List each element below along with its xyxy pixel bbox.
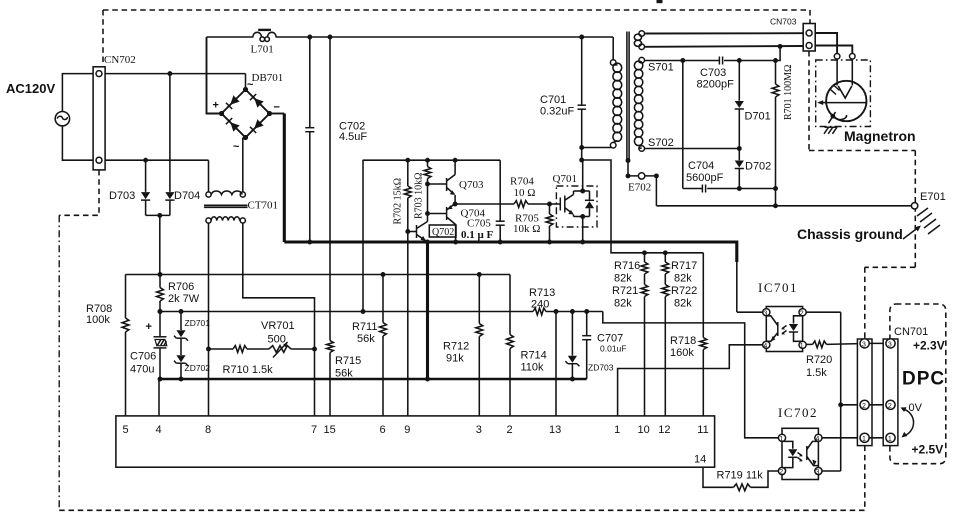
svg-text:470u: 470u [130,364,154,376]
wire IC702 pin3 to 0V line [822,470,841,472]
DB701 diode top-right [254,98,263,107]
wire filament row1 to CN703 [645,32,804,34]
label Q702 boxed [429,225,456,237]
node C705 / rail [498,240,503,245]
dash-dot border left edge [58,215,60,510]
node S701 row / D701 [737,58,742,63]
svg-text:D703: D703 [109,190,135,202]
svg-text:C703: C703 [700,67,726,79]
resistor R706 [159,275,161,288]
svg-text:0.01uF: 0.01uF [600,344,626,354]
wire driver top row y=160.2 [363,159,500,161]
svg-text:9: 9 [404,424,410,436]
diode D701 [738,61,740,101]
svg-text:110k: 110k [521,362,545,374]
resistor R705 [549,204,551,214]
node R702 / Q702 base [405,229,410,234]
dashed border x=865 lower segment [864,446,866,511]
svg-text:2: 2 [507,424,513,436]
zener ZD702 [176,355,185,362]
svg-text:R712: R712 [443,341,469,353]
svg-text:10k Ω: 10k Ω [513,223,540,235]
IC701 phototransistor [777,322,779,336]
DB701 AC input feed top [245,74,247,90]
svg-text:−: − [274,102,280,114]
transformer primary winding [610,60,616,66]
svg-text:6: 6 [380,424,386,436]
node top rail / C702 [307,35,312,40]
svg-text:160k: 160k [670,347,694,359]
svg-text:14: 14 [694,454,706,466]
node ZD702 bottom [179,377,184,382]
dashed border CN702 stub [59,170,99,215]
svg-text:240: 240 [531,299,549,311]
svg-text:DPC: DPC [902,369,945,390]
svg-text:C705: C705 [467,218,491,230]
optocoupler IC702 box [782,428,818,479]
dashed border x=865 upper segment [864,267,866,339]
node R705 / rail [547,240,552,245]
svg-text:56k: 56k [357,333,375,345]
transistor Q703 [428,183,447,185]
svg-text:12: 12 [658,424,670,436]
resistor R703 [427,160,429,166]
wire primary bottom link [582,147,612,149]
node filament row2 / HV jog [778,44,783,49]
node Vcc/R712 [477,272,482,277]
IC701 LED [794,316,803,324]
capacitor C706 [159,312,161,337]
resistors R716+R721 column to pin 10 [644,253,646,262]
svg-text:R704: R704 [510,176,534,188]
svg-text:R718: R718 [670,335,696,347]
svg-text:ZD701: ZD701 [185,318,211,328]
svg-text:91k: 91k [446,353,464,365]
node ZD703 bottom [570,377,575,382]
node E702 right [654,173,659,178]
svg-text:VR701: VR701 [261,320,295,332]
dashed border left upper segment [102,10,104,62]
wire gate lead into Q701 [550,203,561,205]
node gate row / R705 [547,202,552,207]
svg-text:CN701: CN701 [894,326,928,338]
wire CT701 secondary left to IC pin 8 [208,223,210,416]
svg-text:1.5k: 1.5k [806,367,827,379]
svg-text:C704: C704 [688,160,714,172]
node row/R703 [425,158,430,163]
dashed border top edge [103,9,810,11]
resistors R717+R722 column to pin 12 [664,253,666,262]
svg-text:2: 2 [888,403,892,410]
magnetron tube symbol [826,81,866,121]
svg-text:R710 1.5k: R710 1.5k [223,364,274,376]
wire driver supply column x=363 [362,160,364,312]
wire DB701 + output to top rail [207,37,222,114]
connector CN703 [803,24,815,52]
wire C704 row [683,188,702,190]
node Vcc/R711 [381,272,386,277]
dashed border right edge E701 segment [914,151,916,268]
wire IC701 pin3 to emitter rail [737,311,763,313]
wire HV jog to filament row2 [776,46,781,60]
capacitor C707 [586,312,588,336]
svg-text:3: 3 [862,342,866,349]
transistor Q704 (PNP) [428,213,447,215]
IC702 pin circles [778,434,785,441]
dashed boundary HV corner [865,266,916,268]
node S701 row / C704 column [680,58,685,63]
thick emitter rail [284,242,737,262]
diode D704 [169,74,171,192]
wire VR row y=349 [209,348,234,350]
svg-text:R701 100MΩ: R701 100MΩ [783,65,794,121]
resistor R702 and column to IC pin 9 [407,160,409,186]
svg-text:D701: D701 [745,111,771,123]
svg-text:R713: R713 [529,287,555,299]
svg-text:R720: R720 [806,354,832,366]
diode D702 [738,149,740,161]
svg-text:7: 7 [311,424,317,436]
resistor R712 [478,275,480,324]
node C701 / primary bottom [579,145,584,150]
resistor R713 in row [533,308,546,315]
svg-text:R717: R717 [671,260,697,272]
wire filament row2 to CN703 [645,45,804,48]
thick ground rail y=379 [160,378,587,381]
svg-text:S702: S702 [648,137,674,149]
wire pin13 column [555,312,557,416]
resistor R720 row [806,343,812,345]
node link / rail242 [425,240,430,245]
0V bracket arrow [903,409,914,436]
svg-text:S701: S701 [648,62,674,74]
svg-text:5600pF: 5600pF [686,172,724,184]
svg-text:8: 8 [205,424,211,436]
svg-text:R719 11k: R719 11k [717,470,764,482]
svg-text:C701: C701 [540,94,566,106]
control IC box [116,416,715,467]
DB701 diode bottom-left [230,122,239,131]
capacitor C705 [499,160,501,221]
svg-text:2k 7W: 2k 7W [168,293,200,305]
potentiometer VR701 [269,346,291,353]
svg-text:AC120V: AC120V [6,81,55,96]
wire IC701 pin2 to 0V line [806,311,841,313]
svg-text:11: 11 [697,424,708,436]
resistor R701 [775,61,777,85]
wire AC hot: source top to CN702 pin1 and on to DB701 AC input [62,74,93,112]
resistor R708 [125,275,127,319]
wire CN703 to magnetron filament 1 [815,33,837,54]
svg-text:2: 2 [779,469,783,476]
node D701/D702/S702 [737,146,742,151]
dashed border below CN703 to magnetron boundary [808,51,810,151]
node ref row / pin13 [554,309,559,314]
svg-text:0V: 0V [909,402,923,414]
node R703 column / Q704 base wire [425,211,430,216]
wire AC neutral: source bottom to CN702 pin2 and on to CT701 [62,126,93,160]
svg-text:L701: L701 [251,44,274,56]
node D703 top [143,158,148,163]
transformer secondary winding S701-S702 [639,57,645,63]
wire collector sense [582,160,704,253]
svg-text:IC701: IC701 [758,280,798,295]
node ZD703 top [570,309,575,314]
svg-text:D704: D704 [174,190,200,202]
diode D703 [145,160,147,192]
zener ZD703 [571,312,573,356]
svg-text:R715: R715 [335,355,361,367]
capacitor C701 [581,37,583,105]
svg-text:3: 3 [476,424,482,436]
svg-text:R721: R721 [612,285,638,297]
wire Q701 collector [582,160,584,191]
svg-text:R716: R716 [614,260,640,272]
svg-text:E702: E702 [628,182,651,194]
node driver supply / ref row [361,309,366,314]
svg-text:1: 1 [614,424,620,436]
wire HV output to chassis row [775,189,777,206]
current transformer CT701 primary [206,192,211,197]
dashed border right drop to CN703 [809,10,811,24]
wire top rail left of L701 [207,36,254,38]
node Vcc/R706 [158,272,163,277]
svg-text:Chassis ground: Chassis ground [797,226,903,242]
svg-text:15: 15 [324,424,336,436]
capacitor C704 in row [701,185,703,193]
resistor R715 column from top rail to pin 15 [329,37,331,341]
connector DPC-side column [883,339,898,446]
wire DB701 AC bottom to CT701 [242,138,244,192]
zener ZD701 [180,312,182,331]
svg-text:R714: R714 [521,350,547,362]
svg-text:1: 1 [862,436,866,443]
wire gate row y=204 [455,203,514,205]
svg-text:Magnetron: Magnetron [844,128,916,144]
wire C704 column [682,61,684,189]
svg-text:DB701: DB701 [252,72,284,84]
DB701 diode bottom-right [254,119,263,128]
wire IC702 pin4 to connector row1 [822,437,860,439]
node C704 row / R701 [773,186,778,191]
node VR row / pin8 column [206,347,211,352]
wire CT701 secondary right to IC pin 7 [243,223,315,416]
node C702 / rail [307,240,312,245]
svg-text:D702: D702 [745,161,771,173]
terminal E702 [628,175,656,177]
wire core to E702 [627,160,629,176]
resistor R714 [509,275,511,335]
svg-text:R706: R706 [168,281,194,293]
capacitor C702 [309,37,311,127]
svg-text:13: 13 [549,424,561,436]
svg-text:10: 10 [638,424,650,436]
node C707 top [584,309,589,314]
svg-text:+2.5V: +2.5V [912,443,944,457]
svg-text:IC702: IC702 [778,405,818,420]
wire D703/D704 junction [146,214,170,216]
transistor Q701 IGBT symbol [559,198,561,211]
svg-text:C706: C706 [130,351,156,363]
svg-text:10 Ω: 10 Ω [514,187,536,199]
connector board-side column [857,339,872,446]
svg-text:4: 4 [763,343,767,350]
node sense row / R716 [642,250,647,255]
svg-text:R702 15kΩ: R702 15kΩ [393,178,404,225]
svg-text:ZD703: ZD703 [588,363,614,373]
DPC dashed box [890,304,946,464]
dashed boundary magnetron bottom [809,150,915,152]
node C706 top [158,309,163,314]
wire CN703 to magnetron filament 2 [815,46,852,54]
page mark [657,0,663,3]
svg-text:CN703: CN703 [770,17,797,27]
IC702 phototransistor [806,446,808,460]
svg-text:+: + [213,100,219,112]
optocoupler IC701 box [766,307,802,352]
dashed border bottom edge [59,509,865,511]
resistor R718 column to pin 11 [702,253,704,338]
IC702 LED [782,441,793,448]
svg-text:Q702: Q702 [432,227,454,238]
svg-text:R722: R722 [671,285,697,297]
wire S702 row [645,148,740,150]
wire top rail L701 to transformer [276,36,614,38]
connector CN702 [93,67,105,170]
svg-text:3: 3 [888,342,892,349]
svg-text:500: 500 [268,334,286,346]
svg-text:56k: 56k [335,368,353,380]
node link / rail379 [425,377,430,382]
wire top rail into primary [612,37,614,60]
svg-text:Q701: Q701 [553,173,577,185]
wire feedback row y=368.5 pin1 to IC701 pin4 [618,345,763,416]
CT701 secondary [206,218,211,223]
node D704 top [167,71,172,76]
svg-text:R703 10kΩ: R703 10kΩ [414,172,425,219]
CT701 core [204,204,248,206]
svg-text:E701: E701 [920,191,946,203]
svg-text:0.32uF: 0.32uF [540,106,575,118]
wire ref row step to IC702 pin1 feed [603,312,779,438]
node R706 bottom [158,309,163,314]
svg-text:R711: R711 [352,321,377,333]
svg-text:0.1 μ F: 0.1 μ F [461,229,493,241]
resistor R710 [233,346,247,353]
node C704 row / D702 [737,186,742,191]
bridge rectifier DB701 [222,90,270,138]
Q701 internal diode [583,190,590,192]
wire E702 down to chassis row [655,176,657,206]
svg-text:Q703: Q703 [459,179,484,191]
node top rail / C701 [579,35,584,40]
svg-text:~: ~ [247,79,254,91]
svg-text:82k: 82k [674,298,692,310]
wire chassis ground row [656,205,911,207]
svg-text:ZD702: ZD702 [185,363,211,373]
pin 4 stub (ground rail into IC) [158,379,160,416]
node row/R702 [405,158,410,163]
wire pin14 through R719 to IC702 pin2 [703,468,734,488]
svg-text:1: 1 [888,436,892,443]
node S701 row end / R701 [773,58,778,63]
wire Vcc row y=274 [126,274,511,276]
terminal E701 [911,203,917,209]
wire DB701 - output to thick emitter rail [270,113,285,115]
node row/Q703 collector [453,158,458,163]
node Q704 collector / rail [453,240,458,245]
svg-text:5: 5 [123,424,129,436]
node ZD701 top [179,309,184,314]
wire Q701 emitter to rail [582,217,584,243]
svg-text:82k: 82k [614,273,632,285]
AC source V1 (AC120V) [55,112,69,126]
svg-text:8200pF: 8200pF [697,79,735,91]
node Q704 emitter / gate row [453,202,458,207]
node top rail / R715 column [328,35,333,40]
DB701 diode top-left [230,95,239,104]
node VR row / pin7 column [312,347,317,352]
svg-text:82k: 82k [614,298,632,310]
wires between connector halves [869,342,886,344]
resistor R704 [514,201,528,208]
transformer filament winding [639,31,645,37]
IGBT Q701 dash-dot box [556,186,597,227]
svg-text:1: 1 [800,343,804,350]
node sense row / R717 [663,250,668,255]
svg-text:CN702: CN702 [104,54,136,66]
thick link Q702 emitter rail to ground rail [426,242,429,379]
node R703 / Q703 base wire [425,182,430,187]
svg-text:4: 4 [156,424,162,436]
node C706 bottom rail [158,377,163,382]
transformer T701 core [626,32,628,160]
magnetron dashed box [816,60,871,127]
svg-text:3: 3 [816,469,820,476]
E701 chassis ground symbol [917,208,940,234]
resistor R711 [382,275,384,323]
DB701 vertex nodes [243,87,248,92]
inductor L701 [253,32,262,37]
transistor Q702 [408,231,417,233]
svg-text:+: + [146,321,152,333]
wire reference row y=311.5 [160,311,533,313]
svg-text:CT701: CT701 [248,200,279,212]
svg-text:82k: 82k [674,273,692,285]
capacitor C703 in S701 row [718,57,720,65]
svg-text:100k: 100k [86,314,110,326]
node 0V line / connector row [838,402,843,407]
node C701 / collector node [579,158,584,163]
svg-text:+2.3V: +2.3V [913,339,945,353]
wire S701 row [645,60,720,62]
svg-text:~: ~ [233,141,240,153]
wire 0V row to connector [841,404,860,406]
IC701 pin circles [763,309,770,316]
svg-text:4.5uF: 4.5uF [339,131,367,143]
svg-text:2: 2 [862,403,866,410]
